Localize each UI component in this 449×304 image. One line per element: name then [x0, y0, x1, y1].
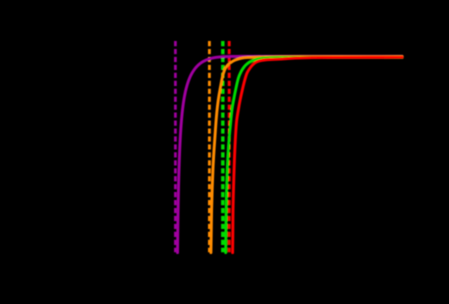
- green solid potential curve: [226, 57, 403, 252]
- red dashed vertical asymptote line: [228, 41, 231, 252]
- red solid potential curve: [233, 57, 403, 252]
- green dashed vertical asymptote line: [221, 41, 224, 252]
- purple solid potential curve: [178, 56, 403, 252]
- orange dashed vertical asymptote line: [208, 41, 211, 252]
- purple dashed vertical asymptote line: [174, 41, 177, 252]
- orange solid potential curve: [211, 57, 402, 253]
